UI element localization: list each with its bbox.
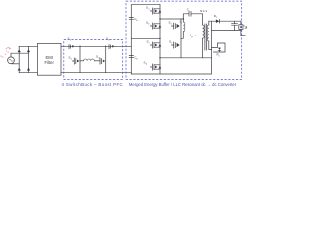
svg-text:Filter: Filter xyxy=(45,60,55,65)
svg-text:→: → xyxy=(194,33,197,37)
svg-text:ac: ac xyxy=(2,57,4,59)
svg-text:4 SwitchBuck – Boost PFC: 4 SwitchBuck – Boost PFC xyxy=(62,82,124,87)
svg-text:ac: ac xyxy=(7,51,9,53)
svg-text:Merged Energy Buffer / LLC Res: Merged Energy Buffer / LLC Resonant dc →… xyxy=(129,82,237,87)
svg-text:N:1:1: N:1:1 xyxy=(200,9,208,13)
